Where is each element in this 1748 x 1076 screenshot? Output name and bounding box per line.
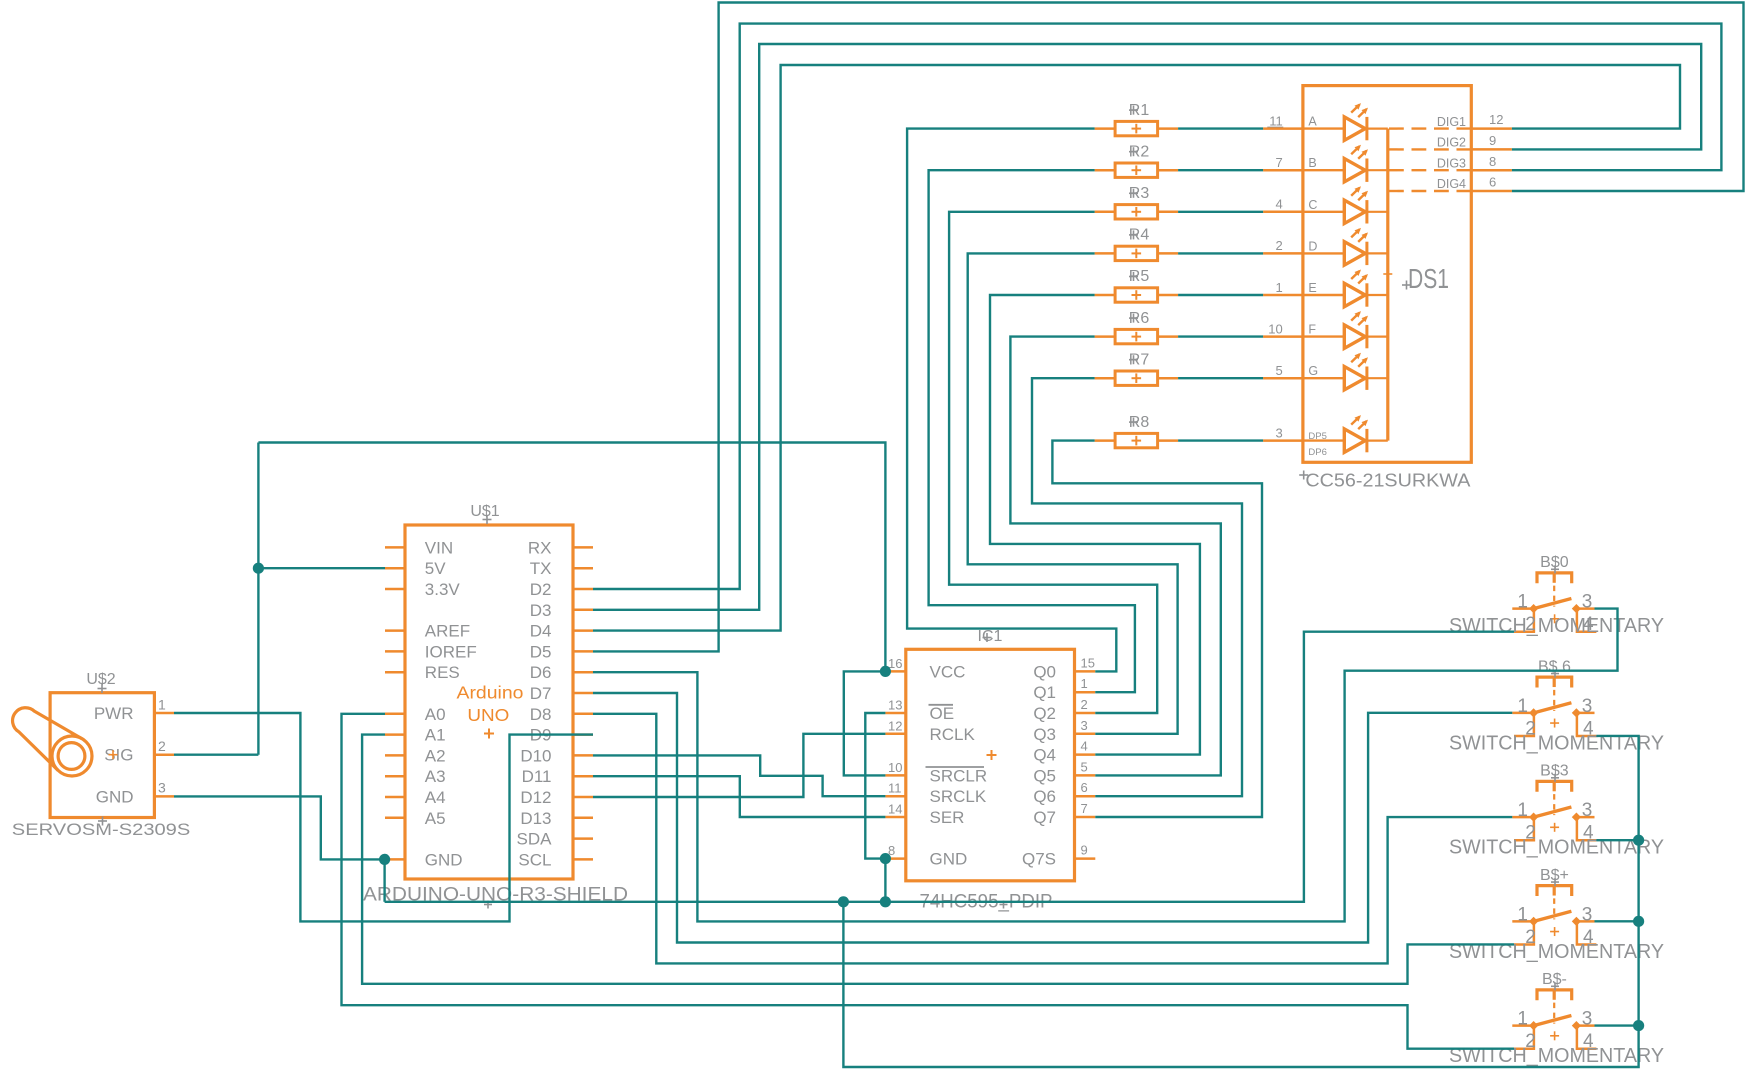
junction at (885.4,671.4) [880,666,891,677]
B$0 pin 3 [1576,607,1594,610]
U$1 pin RX [573,546,593,549]
svg-text:10: 10 [1268,321,1282,336]
svg-text:13: 13 [888,698,902,713]
U$1 pin D8 [573,713,593,716]
svg-text:D: D [1308,239,1317,253]
U$1 pin D7 [573,692,593,695]
svg-text:VCC: VCC [930,662,966,681]
DS1 pin 2 segment D [1263,252,1303,255]
svg-text:7: 7 [1275,155,1282,170]
resistor R7 [1095,351,1179,385]
U$1 pin IOREF [385,650,405,653]
svg-text:2: 2 [158,738,166,754]
U$1 pin D2 [573,588,593,591]
U$1 pin GND [385,858,405,861]
B$0 pin 1 and lever [1512,607,1533,610]
svg-text:D4: D4 [530,622,552,641]
wire net D7 to B$.6 pin1 [593,693,1512,943]
U$1 pin SCL [573,858,593,861]
svg-text:D13: D13 [520,809,551,828]
svg-text:Q1: Q1 [1033,683,1056,702]
servo U$2 SERVOSM-S2309S [12,671,191,839]
Arduino shield U$1 ARDUINO-UNO-R3-SHIELD [363,503,628,909]
svg-text:RX: RX [528,538,552,557]
svg-text:D2: D2 [530,580,552,599]
svg-text:11: 11 [1269,113,1283,128]
U$1 pin TX [573,567,593,570]
junction at (1638.6,1025.6) [1633,1020,1644,1031]
svg-text:Q4: Q4 [1033,746,1056,765]
svg-text:SRCLK: SRCLK [930,787,987,806]
IC1 pin 14 SER [885,816,905,819]
junction at (843.4,901.8) [838,896,849,907]
U$1 pin D4 [573,629,593,632]
junction at (1638.6,840.2) [1633,835,1644,846]
svg-text:Q5: Q5 [1033,766,1056,785]
B$0 pin 4 [1577,611,1597,632]
svg-text:DIG1: DIG1 [1437,115,1466,129]
U$1 pin VIN [385,546,405,549]
svg-text:1: 1 [158,696,166,712]
U$1 pin 3.3V [385,588,405,591]
wire net D8 to B$3 pin1 [593,714,1512,964]
IC1 pin 2 Q2 [1075,712,1096,715]
B$0 button actuator [1537,573,1572,583]
svg-text:UNO: UNO [467,705,509,725]
U$2 pin 1 PWR [154,712,174,715]
B$- button actuator [1537,990,1572,1000]
U$1 pin A1 [385,733,405,736]
svg-text:GND: GND [96,787,134,806]
svg-text:1: 1 [1517,592,1528,613]
svg-text:Q7S: Q7S [1022,850,1056,869]
DS1 pin 12 DIG1 [1471,127,1512,130]
B$.6 pin 2 [1514,715,1534,736]
svg-text:D12: D12 [520,788,551,807]
U$1 pin D12 [573,796,593,799]
resistor R3 [1095,185,1179,219]
B$+ button actuator [1537,886,1572,896]
U$1 pin A3 [385,775,405,778]
svg-text:3: 3 [1582,1009,1593,1030]
U$1 pin D9 [573,733,593,736]
wire net GND bus [385,632,1645,1067]
U$1 pin A4 [385,796,405,799]
wire R4 to DS1 segment D [1178,252,1263,254]
svg-text:3: 3 [158,780,166,796]
U$1 pin D11 [573,775,593,778]
svg-text:U$1: U$1 [470,503,499,520]
wire net 5V-VCC [174,443,891,776]
7-segment display DS1 CC56-21SURKWA [1263,86,1512,491]
svg-text:3.3V: 3.3V [425,580,461,599]
svg-text:VIN: VIN [425,538,453,557]
svg-text:Q3: Q3 [1033,725,1056,744]
DS1 LED segment B [1303,169,1344,171]
svg-text:15: 15 [1081,655,1095,670]
junction at (258.4,568.2) [253,563,264,574]
svg-text:Q2: Q2 [1033,704,1056,723]
B$.6 pin 1 and lever [1512,712,1533,715]
svg-text:12: 12 [1489,112,1503,127]
DS1 pin 8 DIG3 [1471,169,1512,172]
svg-text:3: 3 [1582,696,1593,717]
svg-text:1: 1 [1517,696,1528,717]
IC1 pin 1 Q1 [1075,691,1096,694]
IC1 pin 11 SRCLK [885,795,905,798]
svg-text:10: 10 [888,760,902,775]
svg-text:GND: GND [425,850,463,869]
svg-text:2: 2 [1081,697,1088,712]
svg-text:8: 8 [1489,154,1496,169]
B$.6 pin 4 [1577,715,1597,736]
wire net Q5 to R6 [1010,337,1220,776]
junction at (885.4,901.8) [880,896,891,907]
wire R5 to DS1 segment E [1178,294,1263,296]
DS1 pin 10 segment F [1263,335,1303,338]
svg-text:D11: D11 [522,767,552,786]
wire R1 to DS1 segment A [1178,127,1263,129]
svg-text:4: 4 [1275,197,1282,212]
svg-text:SER: SER [930,808,965,827]
svg-text:3: 3 [1275,425,1282,440]
U$1 pin 5V [385,567,405,570]
wire net D11 to SER [593,776,885,817]
resistor R8 [1095,414,1179,448]
U$1 pin RES [385,671,405,674]
svg-text:DIG4: DIG4 [1437,177,1466,191]
DS1 pin 4 segment C [1263,211,1303,214]
DS1 pin 6 DIG4 [1471,190,1512,193]
svg-text:1: 1 [1517,904,1528,925]
switch B$3 SWITCH_MOMENTARY [1449,763,1664,859]
wire net Q4 to R5 [990,295,1200,755]
svg-text:CC56-21SURKWA: CC56-21SURKWA [1305,471,1471,491]
IC1 pin 15 Q0 [1075,670,1096,673]
svg-text:9: 9 [1081,843,1088,858]
svg-text:SDA: SDA [517,830,553,849]
svg-text:DP6: DP6 [1308,447,1326,458]
B$.6 button actuator [1537,677,1572,687]
U$1 pin D3 [573,609,593,612]
U$1 pin A0 [385,713,405,716]
svg-text:A4: A4 [425,788,446,807]
IC1 pin 3 Q3 [1075,733,1096,736]
svg-text:A1: A1 [425,726,446,745]
svg-text:Q6: Q6 [1033,787,1056,806]
svg-text:A2: A2 [425,746,446,765]
svg-text:TX: TX [530,559,552,578]
B$- pin 3 [1576,1024,1594,1027]
U$1 pin A5 [385,817,405,820]
DS1 pin 11 segment A [1263,127,1303,130]
svg-text:6: 6 [1081,780,1088,795]
svg-text:3: 3 [1582,800,1593,821]
svg-text:5: 5 [1275,363,1282,378]
svg-text:12: 12 [888,718,902,733]
B$- pin 2 [1514,1028,1534,1049]
svg-text:F: F [1308,323,1316,337]
svg-text:B: B [1308,156,1316,170]
svg-text:PWR: PWR [94,704,134,723]
svg-text:C: C [1308,198,1317,212]
svg-text:2: 2 [1275,238,1282,253]
wire net servo GND to Arduino GND [174,796,390,901]
svg-text:D6: D6 [530,663,552,682]
switch B$0 SWITCH_MOMENTARY [1449,554,1664,637]
svg-text:E: E [1308,281,1316,295]
svg-text:D3: D3 [530,601,552,620]
IC1 pin 8 GND [885,857,905,860]
svg-text:3: 3 [1081,718,1088,733]
svg-text:5V: 5V [425,559,446,578]
IC1 pin 7 Q7 [1075,816,1096,819]
svg-text:AREF: AREF [425,622,470,641]
DS1 pin 9 DIG2 [1471,148,1512,151]
U$1 pin D6 [573,671,593,674]
DS1 LED segment G [1303,377,1344,379]
resistor R2 [1095,143,1179,177]
svg-text:RES: RES [425,663,460,682]
U$2 pin 3 GND [154,795,174,798]
svg-text:D5: D5 [530,642,552,661]
svg-text:1: 1 [1275,280,1282,295]
junction at (384.6,859.4) [379,854,390,865]
svg-text:D8: D8 [530,705,552,724]
DS1 LED segment E [1303,294,1344,296]
resistor R5 [1095,268,1179,302]
DS1 LED segment F [1303,335,1344,337]
B$3 button actuator [1537,781,1572,791]
wire net Q1 to R2 [929,170,1135,692]
svg-text:D7: D7 [530,684,552,703]
B$3 pin 4 [1577,819,1597,840]
U$2 pin 2 SIG [154,753,174,756]
wire net A1 to B$+ pin2 [362,735,1514,984]
switch B$.6 SWITCH_MOMENTARY [1449,658,1664,754]
wire net D2 to DIG3 [593,24,1721,589]
svg-text:IC1: IC1 [978,628,1003,645]
wire net OE to GND pin8 [865,713,891,902]
wire R6 to DS1 segment F [1178,335,1263,337]
svg-text:A0: A0 [425,705,446,724]
DS1 LED segment DP [1303,439,1344,441]
B$+ pin 1 and lever [1512,920,1533,923]
wire net Q2 to R3 [949,212,1157,713]
svg-text:SERVOSM-S2309S: SERVOSM-S2309S [12,820,191,839]
svg-text:G: G [1308,364,1318,378]
svg-text:DS1: DS1 [1408,263,1449,294]
resistor R1 [1095,102,1179,136]
IC1 pin 6 Q6 [1075,795,1096,798]
svg-text:11: 11 [888,781,902,796]
wire net D6 to B$0 pin3 [593,609,1618,922]
DS1 pin 3 segment DP [1263,439,1303,442]
DS1 pin 5 segment G [1263,377,1303,380]
svg-text:A: A [1308,115,1317,129]
switch B$+ SWITCH_MOMENTARY [1449,867,1664,963]
B$3 pin 2 [1514,819,1534,840]
B$- pin 4 [1577,1028,1597,1049]
IC1 pin 4 Q4 [1075,753,1096,756]
resistor R4 [1095,227,1179,261]
DS1 pin 7 segment B [1263,169,1303,172]
svg-text:7: 7 [1081,801,1088,816]
DS1 LED segment D [1303,252,1344,254]
svg-text:4: 4 [1081,739,1088,754]
svg-text:RCLK: RCLK [930,725,976,744]
svg-text:Q7: Q7 [1033,808,1056,827]
svg-text:SWITCH_MOMENTARY: SWITCH_MOMENTARY [1449,615,1664,637]
wire net Q7 to R8 [1052,441,1262,817]
B$+ pin 3 [1576,920,1594,923]
wire net A0 to B$- pin2 [342,714,1515,1049]
svg-text:A5: A5 [425,809,446,828]
wire net Q0 to R1 [907,129,1116,672]
svg-text:SCL: SCL [518,850,551,869]
junction at (1638.6,921.35) [1633,916,1644,927]
svg-text:DIG3: DIG3 [1437,156,1466,170]
B$.6 pin 3 [1576,712,1594,715]
svg-text:A3: A3 [425,767,446,786]
svg-text:OE: OE [930,704,955,723]
U$1 pin SDA [573,837,593,840]
B$0 pin 2 [1514,611,1534,632]
wire net D5 to DIG4 [593,3,1744,652]
IC1 pin 9 Q7S [1075,857,1096,860]
IC1 pin 16 VCC [885,670,905,673]
IC1 pin 12 RCLK [885,733,905,736]
switch B$- SWITCH_MOMENTARY [1449,971,1664,1067]
B$- pin 1 and lever [1512,1024,1533,1027]
svg-text:6: 6 [1489,175,1496,190]
svg-text:DIG2: DIG2 [1437,136,1466,150]
svg-text:3: 3 [1582,592,1593,613]
svg-text:1: 1 [1081,676,1088,691]
svg-text:5: 5 [1081,759,1088,774]
svg-text:Q0: Q0 [1033,662,1056,681]
shift register IC1 74HC595_PDIP [885,628,1095,913]
U$1 pin D13 [573,817,593,820]
U$1 pin D5 [573,650,593,653]
U$1 pin A2 [385,754,405,757]
wire net D12 to RCLK [593,734,885,797]
wire net Q3 to R4 [968,253,1178,733]
svg-text:14: 14 [888,802,902,817]
svg-text:9: 9 [1489,133,1496,148]
U$1 pin D10 [573,754,593,757]
svg-text:D10: D10 [520,746,551,765]
B$+ pin 2 [1514,923,1534,944]
DS1 LED segment A [1303,127,1344,129]
B$3 pin 1 and lever [1512,816,1533,819]
wire net D10 to SRCLK [593,755,885,796]
wire net D9 to servo PWR [174,713,593,921]
B$+ pin 4 [1577,923,1597,944]
svg-text:1: 1 [1517,1009,1528,1030]
DS1 common cathode bus [1386,129,1389,441]
resistor R6 [1095,310,1179,344]
wire net Q6 to R7 [1032,378,1242,796]
svg-text:GND: GND [930,850,968,869]
wire R3 to DS1 segment C [1178,211,1263,213]
wire R7 to DS1 segment G [1178,377,1263,379]
junction at (885.4,858.6) [880,853,891,864]
IC1 pin 13 OE [885,712,905,715]
wire R8 to DS1 segment DP [1178,439,1263,441]
IC1 pin 10 SRCLR [885,774,905,777]
svg-text:SRCLR: SRCLR [930,766,988,785]
svg-text:IOREF: IOREF [425,642,477,661]
U$1 pin AREF [385,629,405,632]
B$3 pin 3 [1576,816,1594,819]
svg-text:3: 3 [1582,904,1593,925]
wire net D3 to DIG2 [593,44,1701,610]
svg-text:Arduino: Arduino [457,683,524,703]
svg-text:1: 1 [1517,800,1528,821]
svg-text:U$2: U$2 [86,671,115,688]
IC1 pin 5 Q5 [1075,774,1096,777]
wire R2 to DS1 segment B [1178,169,1263,171]
DS1 LED segment C [1303,211,1344,213]
wire net D4 to DIG1 [593,65,1680,631]
DS1 pin 1 segment E [1263,294,1303,297]
